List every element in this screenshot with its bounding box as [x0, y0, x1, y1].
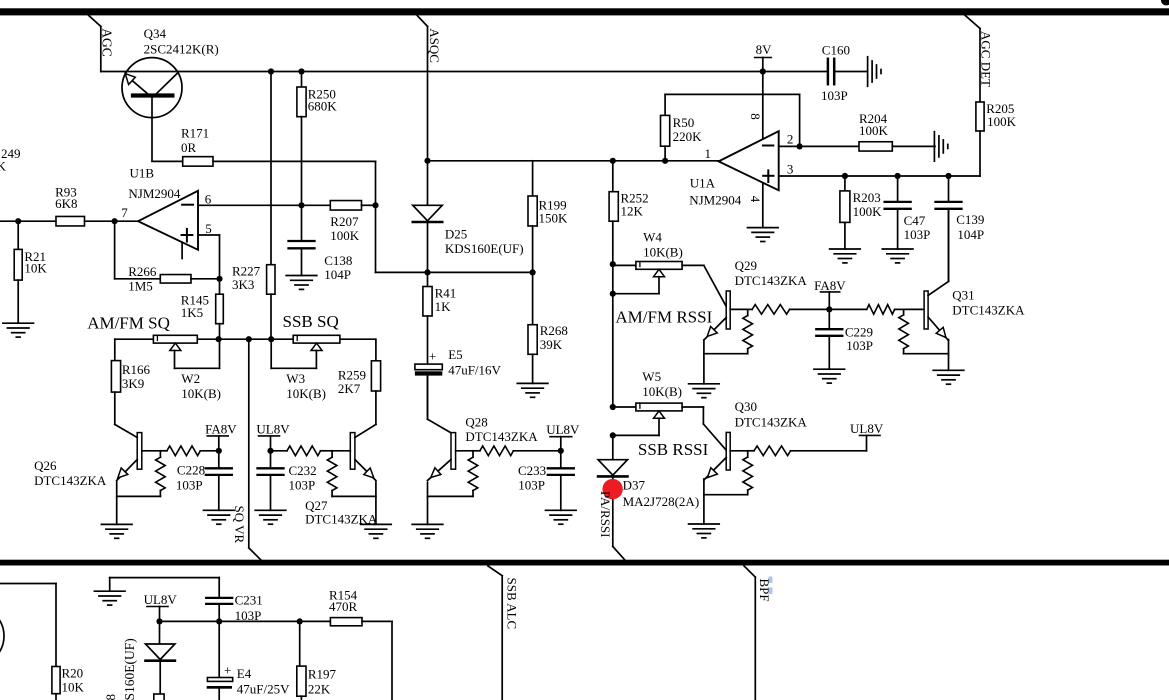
svg-text:R268: R268: [540, 323, 568, 338]
svg-text:R227: R227: [232, 263, 261, 278]
svg-text:AM/FM RSSI: AM/FM RSSI: [615, 307, 712, 326]
svg-text:K: K: [0, 159, 7, 174]
svg-text:NJM2904: NJM2904: [128, 186, 181, 201]
svg-text:SSB RSSI: SSB RSSI: [638, 440, 709, 459]
svg-text:220K: 220K: [673, 129, 703, 144]
svg-text:100K: 100K: [859, 123, 889, 138]
svg-text:Q31: Q31: [952, 287, 974, 302]
svg-text:1M5: 1M5: [128, 278, 153, 293]
svg-text:7: 7: [121, 205, 128, 220]
svg-text:AGC: AGC: [99, 28, 114, 57]
svg-text:103P: 103P: [235, 608, 262, 623]
svg-text:DTC143ZKA: DTC143ZKA: [34, 473, 107, 488]
svg-text:47uF/25V: 47uF/25V: [237, 681, 290, 696]
svg-text:AGC DET: AGC DET: [979, 31, 994, 87]
svg-text:D25: D25: [445, 227, 467, 242]
svg-text:8V: 8V: [756, 42, 773, 57]
svg-text:R166: R166: [122, 362, 151, 377]
svg-text:W5: W5: [642, 369, 661, 384]
svg-text:UL8V: UL8V: [256, 421, 290, 436]
svg-text:8: 8: [748, 113, 763, 120]
svg-text:DTC143ZKA: DTC143ZKA: [735, 414, 808, 429]
svg-text:10K: 10K: [24, 260, 47, 275]
svg-text:W4: W4: [643, 230, 662, 245]
svg-text:6: 6: [205, 191, 212, 206]
svg-text:C233: C233: [518, 463, 546, 478]
svg-text:5: 5: [205, 221, 212, 236]
svg-text:ASQC: ASQC: [427, 28, 442, 63]
svg-text:2SC2412K(R): 2SC2412K(R): [144, 42, 219, 57]
svg-text:NJM2904: NJM2904: [689, 192, 742, 207]
svg-text:39K: 39K: [540, 337, 563, 352]
svg-text:103P: 103P: [846, 338, 873, 353]
svg-text:10K: 10K: [62, 680, 85, 695]
svg-text:R50: R50: [673, 115, 695, 130]
svg-text:2K7: 2K7: [338, 381, 361, 396]
svg-text:R266: R266: [128, 264, 157, 279]
svg-text:R20: R20: [62, 666, 84, 681]
svg-text:C138: C138: [324, 253, 352, 268]
svg-text:103P: 103P: [289, 478, 316, 493]
svg-text:SSB SQ: SSB SQ: [283, 312, 339, 331]
svg-text:R207: R207: [330, 214, 359, 229]
svg-text:U1B: U1B: [130, 165, 155, 180]
svg-text:103P: 103P: [904, 227, 931, 242]
svg-text:UL8V: UL8V: [546, 422, 580, 437]
svg-text:C228: C228: [177, 462, 205, 477]
svg-text:Q26: Q26: [34, 458, 57, 473]
svg-text:DTC143ZKA: DTC143ZKA: [465, 429, 538, 444]
svg-text:R171: R171: [181, 126, 209, 141]
svg-text:470R: 470R: [329, 599, 358, 614]
svg-text:+: +: [224, 663, 231, 678]
svg-text:MA2J728(2A): MA2J728(2A): [623, 494, 700, 509]
svg-text:150K: 150K: [539, 210, 569, 225]
svg-text:W2: W2: [181, 371, 200, 386]
svg-text:Q28: Q28: [465, 414, 487, 429]
svg-text:AM/FM SQ: AM/FM SQ: [87, 314, 170, 333]
svg-text:C47: C47: [904, 213, 926, 228]
svg-text:0R: 0R: [181, 140, 197, 155]
svg-text:100K: 100K: [853, 204, 883, 219]
svg-text:1K: 1K: [435, 299, 452, 314]
svg-text:103P: 103P: [821, 88, 848, 103]
svg-text:C232: C232: [289, 463, 317, 478]
svg-text:+: +: [429, 348, 436, 363]
svg-text:4: 4: [748, 196, 763, 203]
svg-text:104P: 104P: [324, 267, 351, 282]
svg-text:R197: R197: [308, 666, 337, 681]
svg-text:E4: E4: [237, 666, 252, 681]
svg-text:C160: C160: [822, 42, 850, 57]
svg-text:104P: 104P: [957, 227, 984, 242]
svg-text:C231: C231: [235, 592, 263, 607]
svg-text:R203: R203: [853, 190, 881, 205]
svg-text:U1A: U1A: [690, 176, 716, 191]
svg-text:12K: 12K: [621, 203, 644, 218]
svg-text:Q30: Q30: [735, 399, 757, 414]
svg-text:10K(B): 10K(B): [642, 384, 682, 399]
svg-text:Q29: Q29: [735, 258, 757, 273]
svg-text:W3: W3: [286, 371, 305, 386]
svg-text:SSB ALC: SSB ALC: [504, 578, 519, 630]
svg-text:100K: 100K: [987, 114, 1017, 129]
svg-text:DTC143ZKA: DTC143ZKA: [735, 273, 808, 288]
svg-text:D37: D37: [623, 478, 646, 493]
svg-text:3K9: 3K9: [122, 376, 144, 391]
svg-text:3K3: 3K3: [232, 277, 254, 292]
svg-text:2: 2: [787, 131, 794, 146]
svg-text:DTC143ZKA: DTC143ZKA: [305, 512, 378, 527]
svg-text:FA8V: FA8V: [814, 278, 846, 293]
svg-text:10K(B): 10K(B): [181, 386, 221, 401]
svg-text:47uF/16V: 47uF/16V: [448, 362, 501, 377]
svg-text:SQ VR: SQ VR: [232, 506, 247, 544]
svg-text:KDS160E(UF): KDS160E(UF): [122, 638, 137, 700]
svg-text:680K: 680K: [308, 98, 338, 113]
svg-text:DTC143ZKA: DTC143ZKA: [952, 303, 1025, 318]
svg-text:10K(B): 10K(B): [643, 245, 683, 260]
svg-text:E5: E5: [448, 347, 462, 362]
svg-text:103P: 103P: [518, 478, 545, 493]
svg-text:8: 8: [103, 694, 118, 700]
svg-text:22K: 22K: [308, 681, 331, 696]
svg-text:KDS160E(UF): KDS160E(UF): [445, 241, 524, 256]
svg-text:1K5: 1K5: [181, 305, 203, 320]
svg-text:PA/RSSI: PA/RSSI: [598, 491, 613, 538]
svg-text:6K8: 6K8: [55, 196, 77, 211]
svg-text:10K(B): 10K(B): [286, 386, 326, 401]
svg-text:3: 3: [787, 162, 794, 177]
svg-text:Q34: Q34: [144, 26, 167, 41]
svg-text:103P: 103P: [176, 478, 203, 493]
svg-text:C139: C139: [956, 212, 984, 227]
svg-text:UL8V: UL8V: [144, 592, 178, 607]
svg-text:FA8V: FA8V: [205, 421, 237, 436]
svg-text:1: 1: [705, 146, 712, 161]
svg-text:UL8V: UL8V: [850, 421, 884, 436]
svg-text:100K: 100K: [330, 228, 360, 243]
